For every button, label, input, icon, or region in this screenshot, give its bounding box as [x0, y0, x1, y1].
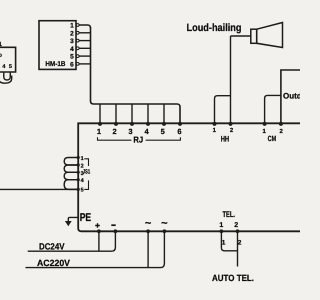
svg-text:5: 5: [70, 54, 74, 61]
svg-text:1: 1: [70, 23, 74, 30]
svg-text:1: 1: [97, 127, 101, 136]
svg-text:HM-1B: HM-1B: [45, 61, 65, 68]
svg-text:3: 3: [70, 38, 74, 45]
svg-text:3: 3: [128, 127, 132, 136]
svg-text:HH: HH: [221, 135, 230, 144]
svg-text:2: 2: [70, 30, 74, 37]
svg-text:6: 6: [70, 62, 74, 69]
svg-text:5: 5: [81, 187, 84, 193]
svg-text:2: 2: [113, 127, 117, 136]
svg-text:~: ~: [145, 217, 152, 229]
svg-text:CM: CM: [268, 134, 277, 143]
svg-text:~: ~: [161, 217, 168, 229]
svg-text:AUTO TEL.: AUTO TEL.: [212, 273, 254, 283]
svg-text:2: 2: [234, 222, 238, 229]
svg-text:1: 1: [81, 156, 84, 162]
svg-text:5: 5: [9, 64, 12, 70]
svg-text:2: 2: [238, 240, 242, 247]
svg-text:4: 4: [70, 46, 74, 53]
svg-text:RJ: RJ: [133, 135, 143, 145]
svg-text:Loud-hailing: Loud-hailing: [187, 22, 242, 34]
svg-text:1: 1: [222, 240, 226, 247]
svg-text:1: 1: [219, 222, 223, 229]
svg-text:5: 5: [161, 127, 165, 136]
svg-text:PE: PE: [80, 212, 92, 224]
svg-text:DC24V: DC24V: [39, 241, 65, 251]
svg-text:JS1: JS1: [83, 169, 91, 176]
svg-text:TEL.: TEL.: [223, 210, 236, 219]
svg-text:Outdoor: Outdoor: [283, 92, 300, 101]
svg-text:AC220V: AC220V: [37, 258, 70, 268]
svg-text:6: 6: [177, 127, 181, 136]
